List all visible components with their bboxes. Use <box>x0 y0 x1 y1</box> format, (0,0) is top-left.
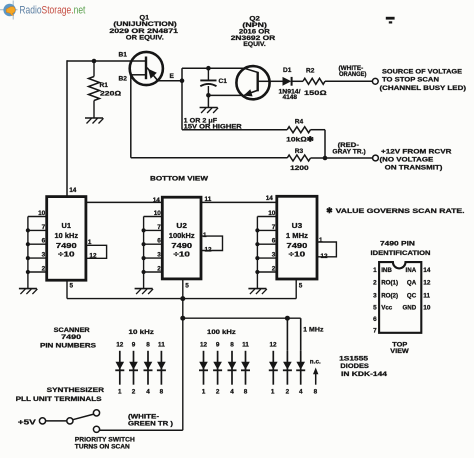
node 1 MHz diode 2 tap <box>285 316 290 321</box>
IC 7490 top-view outline with notch <box>379 262 421 333</box>
svg-text:4148: 4148 <box>283 94 298 101</box>
IC U3 box <box>277 196 317 279</box>
wire riser to top rail <box>181 68 183 81</box>
svg-text:1: 1 <box>319 237 323 244</box>
transistor Q2 (NPN) <box>236 66 270 99</box>
svg-text:4: 4 <box>299 389 303 396</box>
svg-text:10: 10 <box>268 210 276 217</box>
svg-text:11: 11 <box>423 292 430 299</box>
svg-text:1: 1 <box>271 389 275 396</box>
svg-text:R2: R2 <box>306 67 315 74</box>
svg-text:+5V: +5V <box>18 417 36 426</box>
diode 1 MHz #1 <box>269 351 278 385</box>
resistor R4 <box>286 119 314 144</box>
svg-text:SOURCE OF VOLTAGE: SOURCE OF VOLTAGE <box>382 69 463 76</box>
svg-text:R1: R1 <box>100 82 109 89</box>
svg-text:2: 2 <box>132 389 136 396</box>
diode D1 <box>279 67 301 101</box>
wire U2 pins 1-12 feedback loop <box>201 236 223 250</box>
svg-text:12: 12 <box>116 342 124 349</box>
wire n.c. arrow <box>313 368 318 385</box>
svg-text:10: 10 <box>423 304 431 311</box>
svg-text:QC: QC <box>407 292 417 299</box>
svg-text:10kΩ✱: 10kΩ✱ <box>286 136 314 144</box>
wire top rail to Q2 collector <box>182 67 245 69</box>
IC U3 value text <box>286 223 309 258</box>
node U1 pin 6 bus junction <box>26 242 30 246</box>
svg-text:E: E <box>170 73 175 80</box>
svg-text:2: 2 <box>42 266 46 273</box>
svg-text:9: 9 <box>132 342 136 349</box>
wire 1 MHz diode 2 drop <box>286 318 288 351</box>
svg-text:2: 2 <box>373 279 377 286</box>
ground below C1 <box>200 107 218 109</box>
node R3/R4 junction <box>323 156 328 161</box>
node second bus left end <box>180 316 185 321</box>
node U2 pin 3 bus junction <box>142 256 146 260</box>
terminal switch throw (upper) <box>93 410 99 416</box>
svg-text:5: 5 <box>373 304 377 311</box>
svg-text:12: 12 <box>89 252 97 259</box>
wire +5V contact to pole <box>46 420 67 422</box>
svg-text:RadioStorage.net: RadioStorage.net <box>19 5 85 17</box>
wire pin-5 bus U1-U2-U3 <box>67 298 296 300</box>
svg-text:220Ω: 220Ω <box>100 91 121 98</box>
wire U2 pin 5 down to switch <box>182 299 184 431</box>
svg-text:VIEW: VIEW <box>390 348 409 355</box>
diode 10 kHz #2 <box>129 351 138 385</box>
wire U2 pin 5 <box>182 279 184 299</box>
svg-text:7: 7 <box>157 224 161 231</box>
svg-text:3: 3 <box>42 252 46 259</box>
note priority switch <box>75 436 135 450</box>
svg-text:4: 4 <box>230 389 234 396</box>
svg-text:6: 6 <box>157 238 161 245</box>
note +12V from rcvr <box>380 149 452 172</box>
pin labels U2 left <box>154 210 162 273</box>
IC U1 value text <box>55 223 79 258</box>
svg-text:PIN NUMBERS: PIN NUMBERS <box>40 343 97 350</box>
resistor R3 <box>287 148 310 172</box>
node U1 pin 3 bus junction <box>26 256 30 260</box>
svg-text:14: 14 <box>266 195 274 202</box>
svg-text:B1: B1 <box>119 52 128 59</box>
svg-text:TO STOP SCAN: TO STOP SCAN <box>382 76 439 83</box>
svg-text:100kHz: 100kHz <box>169 233 195 240</box>
svg-text:7490 PIN: 7490 PIN <box>380 241 415 248</box>
svg-text:6: 6 <box>42 238 46 245</box>
terminal (red-gray) <box>373 155 379 161</box>
svg-text:B2: B2 <box>119 76 128 83</box>
svg-text:C1: C1 <box>219 78 228 85</box>
wire U1 to U2 pin 14 <box>86 201 162 203</box>
label white-green <box>128 414 173 428</box>
svg-text:INB: INB <box>381 267 392 274</box>
svg-text:2: 2 <box>216 389 220 396</box>
svg-text:INA: INA <box>406 267 417 274</box>
svg-text:IN KDK-144: IN KDK-144 <box>341 371 387 378</box>
ground U1 bus <box>19 288 37 290</box>
svg-text:5: 5 <box>70 282 74 289</box>
svg-text:12: 12 <box>423 279 431 286</box>
wire to +12V terminal <box>325 157 373 159</box>
diode 1 MHz #2 <box>283 351 292 385</box>
svg-text:GND: GND <box>402 304 416 311</box>
svg-text:U1: U1 <box>62 223 72 230</box>
svg-text:R3: R3 <box>295 148 304 155</box>
svg-text:100 kHz: 100 kHz <box>207 329 237 336</box>
svg-text:6: 6 <box>373 316 377 323</box>
svg-text:SCANNER: SCANNER <box>54 327 90 334</box>
svg-text:12: 12 <box>205 247 213 254</box>
note scanner 7490 pin numbers <box>40 327 97 350</box>
svg-text:4: 4 <box>146 389 150 396</box>
svg-text:÷10: ÷10 <box>173 252 190 259</box>
node U2 pin5 on bus <box>180 296 185 301</box>
svg-text:5: 5 <box>185 282 189 289</box>
svg-text:11: 11 <box>158 342 165 349</box>
svg-text:GREEN TR ): GREEN TR ) <box>128 421 173 428</box>
svg-text:IDENTIFICATION: IDENTIFICATION <box>371 250 431 257</box>
pin labels U1 left <box>38 210 46 273</box>
svg-text:1: 1 <box>118 389 122 396</box>
node C1 top <box>206 66 211 71</box>
svg-text:3: 3 <box>373 292 377 299</box>
svg-text:6: 6 <box>272 238 276 245</box>
pin labels U1 1 and 12 <box>88 239 97 259</box>
svg-text:8: 8 <box>314 389 318 396</box>
note 1S1555 diodes <box>339 355 387 378</box>
svg-text:BOTTOM VIEW: BOTTOM VIEW <box>150 175 209 182</box>
resistor R2 <box>303 67 327 97</box>
svg-text:1: 1 <box>88 239 92 246</box>
node U2 pin 2 bus junction <box>142 270 146 274</box>
svg-text:TURNS ON SCAN: TURNS ON SCAN <box>75 443 130 450</box>
wire U3 pin 5 <box>295 279 297 299</box>
IC U2 box <box>162 197 201 279</box>
wire B1 to Q1 and left rail down to U1 pin 14 <box>67 60 146 197</box>
svg-text:÷10: ÷10 <box>289 252 306 259</box>
svg-text:1: 1 <box>203 232 207 239</box>
svg-text:1S1555: 1S1555 <box>339 355 368 362</box>
RadioStorage.net logo <box>0 1 85 20</box>
svg-text:10 kHz: 10 kHz <box>129 329 155 336</box>
wire R2 to terminal <box>325 80 372 82</box>
node U2 pin 6 bus junction <box>142 242 146 246</box>
wire Q1 B2 down and right to R3 <box>131 75 287 158</box>
wire U2 left pin stubs and bus <box>144 217 163 289</box>
svg-text:8: 8 <box>146 342 150 349</box>
svg-text:5: 5 <box>299 282 303 289</box>
terminal switch contact A <box>39 418 45 424</box>
svg-text:15V OR HIGHER: 15V OR HIGHER <box>184 124 242 131</box>
wire U1 pin 5 <box>66 280 68 298</box>
wire D1 to R2 <box>292 80 303 82</box>
svg-text:14: 14 <box>423 267 431 274</box>
terminal switch output <box>93 426 99 432</box>
svg-text:DIODES: DIODES <box>340 363 369 370</box>
transistor Q1 label <box>109 15 178 42</box>
pin labels U3 left <box>268 210 276 273</box>
node U3 pin 3 bus junction <box>255 256 259 260</box>
wire U1 pins 1-12 feedback loop <box>86 245 107 258</box>
node U2 pin 7 bus junction <box>142 228 146 232</box>
wire switch arm <box>73 414 94 420</box>
wire E node down to R4 <box>182 81 287 130</box>
wire R4 right to R3 right <box>311 130 326 158</box>
pin labels U3 1 and 12 <box>319 237 328 260</box>
svg-text:10 kHz: 10 kHz <box>55 233 79 240</box>
svg-text:(NO VOLTAGE: (NO VOLTAGE <box>380 157 435 164</box>
svg-text:150Ω: 150Ω <box>304 90 327 97</box>
svg-text:QA: QA <box>407 279 417 286</box>
svg-text:7490: 7490 <box>171 243 192 250</box>
note value governs scan rate <box>326 206 465 215</box>
wire switch output to scan bus <box>100 429 183 431</box>
diode 100 kHz #2 <box>213 351 222 385</box>
wire C1 bottom to ground <box>207 95 209 107</box>
svg-text:12: 12 <box>200 342 208 349</box>
node U1 pin 7 bus junction <box>26 228 30 232</box>
terminal switch pole <box>67 418 73 424</box>
ground U3 bus <box>248 288 266 290</box>
node U3 pin 2 bus junction <box>255 270 259 274</box>
diode 1 MHz #3 <box>296 351 305 385</box>
svg-text:U3: U3 <box>292 223 303 230</box>
svg-text:1 MHz: 1 MHz <box>303 326 324 333</box>
diode 10 kHz #4 <box>157 351 166 385</box>
svg-text:1: 1 <box>373 267 377 274</box>
svg-text:2: 2 <box>286 389 290 396</box>
svg-text:11: 11 <box>242 342 249 349</box>
svg-text:ORANGE): ORANGE) <box>339 71 367 78</box>
svg-text:VALUE GOVERNS SCAN RATE.: VALUE GOVERNS SCAN RATE. <box>336 208 465 215</box>
svg-text:8: 8 <box>230 342 234 349</box>
svg-text:12: 12 <box>269 342 277 349</box>
svg-text:RO(1): RO(1) <box>381 279 398 286</box>
diode 10 kHz #3 <box>144 351 153 385</box>
IC U2 value text <box>169 223 195 258</box>
wire R3 to junction <box>311 157 326 159</box>
terminal (white-orange) <box>372 78 378 84</box>
svg-text:2: 2 <box>157 266 161 273</box>
svg-text:U2: U2 <box>176 223 187 230</box>
ground (partial symbol, top right) <box>386 17 395 24</box>
ground below R1 <box>85 117 103 119</box>
node R1 top junction <box>92 59 97 64</box>
node E junction <box>180 78 185 83</box>
wire U1 left pin stubs and bus <box>28 217 47 289</box>
wire U3 left pin stubs and bus <box>257 217 276 289</box>
wire C1 bottom to Q2 emitter <box>208 94 243 96</box>
svg-text:R4: R4 <box>295 119 304 126</box>
svg-text:14: 14 <box>69 187 77 194</box>
svg-text:7: 7 <box>272 224 276 231</box>
note top view <box>390 341 409 355</box>
diode 100 kHz #4 <box>241 351 250 385</box>
svg-text:1200: 1200 <box>290 165 309 172</box>
svg-text:7: 7 <box>42 224 46 231</box>
svg-text:10: 10 <box>38 210 46 217</box>
svg-text:11: 11 <box>205 196 212 203</box>
svg-text:10: 10 <box>154 210 162 217</box>
wire U2 pin 11 to U3 pin 14 <box>201 201 277 203</box>
svg-text:EQUIV.: EQUIV. <box>243 41 266 48</box>
svg-text:OR EQUIV.: OR EQUIV. <box>126 35 164 42</box>
note synthesizer pll unit terminals <box>16 387 105 403</box>
svg-text:12: 12 <box>321 253 329 260</box>
value label C1 <box>184 117 242 130</box>
svg-text:2: 2 <box>272 266 276 273</box>
svg-text:(CHANNEL BUSY LED): (CHANNEL BUSY LED) <box>380 85 467 92</box>
transistor Q1 (unijunction) <box>119 52 175 86</box>
svg-text:n.c.: n.c. <box>310 358 321 365</box>
svg-text:÷10: ÷10 <box>58 252 75 259</box>
svg-text:3: 3 <box>272 252 276 259</box>
svg-text:7: 7 <box>373 328 377 335</box>
note source of voltage <box>380 69 467 92</box>
svg-text:SYNTHESIZER: SYNTHESIZER <box>47 387 105 394</box>
wire Q1 emitter to node <box>158 80 183 82</box>
svg-text:GRAY TR.): GRAY TR.) <box>332 149 365 156</box>
svg-text:+12V FROM RCVR: +12V FROM RCVR <box>381 149 452 156</box>
node C1 bottom <box>206 93 211 98</box>
svg-text:7490: 7490 <box>56 243 77 250</box>
svg-text:8: 8 <box>244 389 248 396</box>
capacitor C1 <box>200 68 227 95</box>
wire second bus to 1 MHz diodes <box>183 318 301 351</box>
svg-text:3: 3 <box>157 252 161 259</box>
node U3 pin 7 bus junction <box>255 228 259 232</box>
svg-text:D1: D1 <box>283 67 292 74</box>
pin labels U2 1 and 12 <box>203 232 212 254</box>
svg-text:7490: 7490 <box>61 334 81 341</box>
svg-text:14: 14 <box>153 197 161 204</box>
svg-text:Vcc: Vcc <box>381 304 393 311</box>
svg-text:PLL UNIT TERMINALS: PLL UNIT TERMINALS <box>16 396 103 403</box>
node U3 pin 6 bus junction <box>255 242 259 246</box>
diode 100 kHz #3 <box>228 351 237 385</box>
transistor Q2 label <box>231 15 276 48</box>
svg-text:1: 1 <box>202 389 206 396</box>
note 7490 pin identification <box>371 241 431 258</box>
wire Q2 base to D1 <box>271 80 283 82</box>
svg-text:RO(2): RO(2) <box>381 292 398 299</box>
ground U2 bus <box>135 288 153 290</box>
node U1 pin 2 bus junction <box>26 270 30 274</box>
label red-gray <box>332 142 365 155</box>
IC U1 box <box>47 197 86 281</box>
pin labels 7490 top view <box>373 267 431 335</box>
wire U3 pins 1-12 feedback loop <box>317 242 336 257</box>
resistor R1 <box>89 61 122 118</box>
svg-text:ON TRANSMIT): ON TRANSMIT) <box>385 164 443 171</box>
label white-orange <box>339 65 367 78</box>
svg-text:7490: 7490 <box>287 243 308 250</box>
svg-text:9: 9 <box>216 342 220 349</box>
svg-text:✱: ✱ <box>326 206 333 215</box>
svg-text:8: 8 <box>160 389 164 396</box>
diode 100 kHz #1 <box>199 351 208 385</box>
svg-text:1 MHz: 1 MHz <box>286 233 309 240</box>
diode 10 kHz #1 <box>115 351 124 385</box>
